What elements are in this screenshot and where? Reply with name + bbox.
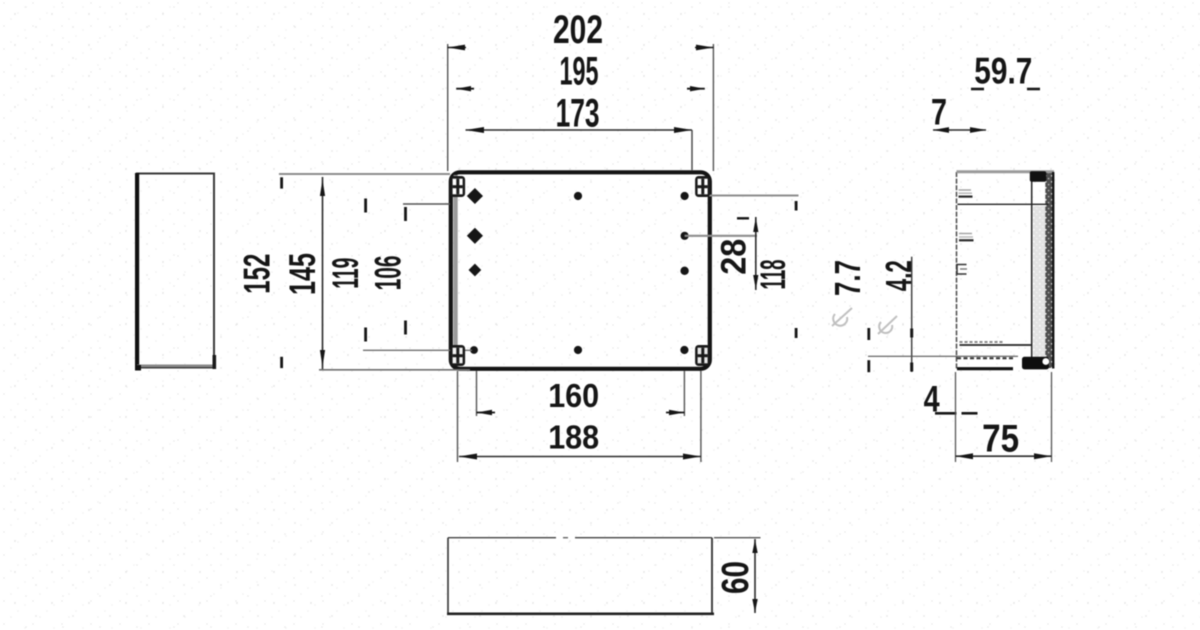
dim 28 line: [737, 217, 758, 290]
dim 59.7 arrows: [971, 88, 1040, 91]
svg-text:152: 152: [237, 254, 278, 294]
dim 202 arrows: [448, 45, 714, 51]
dim 60 top extension: [714, 537, 761, 539]
corner screw bottom-right: [695, 345, 710, 366]
left top extension line: [279, 173, 450, 175]
dim 188 line: [459, 454, 701, 460]
side view floor hatch band: [960, 342, 1032, 345]
dim 4.2 line: [910, 257, 913, 372]
side view left edge mark row2: [959, 234, 974, 241]
svg-text:28: 28: [715, 239, 754, 275]
svg-text:59.7: 59.7: [974, 50, 1032, 91]
dim 118 upper tick: [795, 201, 798, 211]
svg-text:118: 118: [754, 260, 793, 290]
corner screw top-left: [450, 176, 465, 197]
dim 28 extension: [685, 235, 757, 237]
dim 118 upper extension: [709, 195, 799, 197]
side view left edge mark row1: [959, 190, 973, 197]
dim 195 arrows: [456, 86, 705, 91]
lid seam gray band left: [454, 175, 458, 366]
dim 119 lower extension: [363, 349, 472, 351]
dim 7.7 arrows: [867, 328, 870, 372]
svg-text:145: 145: [282, 253, 323, 295]
bottom step extension line: [868, 355, 1018, 357]
dim 75 line: [956, 453, 1052, 459]
svg-text:60: 60: [715, 561, 757, 594]
main top view box outline: [451, 172, 710, 368]
side view knurl column: [1033, 206, 1045, 368]
dim 202 extension lines: [448, 44, 714, 171]
holes row3: [469, 264, 689, 277]
side view outline: [957, 172, 1055, 369]
corner screw top-right: [695, 176, 710, 197]
svg-text:119: 119: [325, 258, 366, 289]
svg-text:7: 7: [931, 91, 947, 132]
dim 145 line: [320, 177, 325, 369]
dim 118 lower tick: [795, 328, 798, 338]
svg-text:188: 188: [548, 418, 599, 455]
corner screw bottom-left: [450, 345, 465, 366]
side view left edge mark row3: [957, 265, 967, 275]
dim 75 extension verticals: [956, 372, 1052, 462]
side view bottom-right foot: [1022, 357, 1049, 370]
dim 173 line: [466, 127, 693, 170]
svg-text:75: 75: [982, 417, 1019, 460]
svg-text:160: 160: [548, 377, 599, 414]
dim 4 dashes: [935, 412, 978, 415]
side view lid seam: [958, 203, 1049, 205]
side view top-right corner block: [1030, 171, 1047, 181]
svg-text:106: 106: [368, 255, 409, 290]
svg-text:202: 202: [553, 8, 603, 52]
svg-text:7.7: 7.7: [827, 260, 868, 296]
holes row2: [467, 228, 689, 244]
svg-text:195: 195: [560, 49, 599, 93]
side view inner wall line: [1031, 172, 1033, 369]
side view bottom knurl dashes: [957, 357, 1013, 359]
dim 106 upper extension: [403, 203, 450, 205]
bottom extension verticals: [458, 371, 701, 462]
dim 106 arrows: [404, 207, 407, 335]
dim 152 arrows: [280, 177, 283, 368]
bottom view rectangle: [447, 538, 714, 614]
diameter squiggles: [832, 308, 897, 334]
svg-text:4.2: 4.2: [878, 260, 919, 291]
holes row1: [467, 188, 689, 204]
dim 119 arrows: [364, 199, 367, 342]
holes bottom row: [470, 346, 688, 354]
dim 60 line: [752, 539, 757, 613]
dim 7 line: [933, 127, 987, 133]
left bottom extension line: [319, 369, 470, 371]
lid side view (left rectangle): [135, 173, 216, 371]
svg-text:173: 173: [556, 92, 600, 136]
dim 160 arrows: [477, 410, 685, 415]
